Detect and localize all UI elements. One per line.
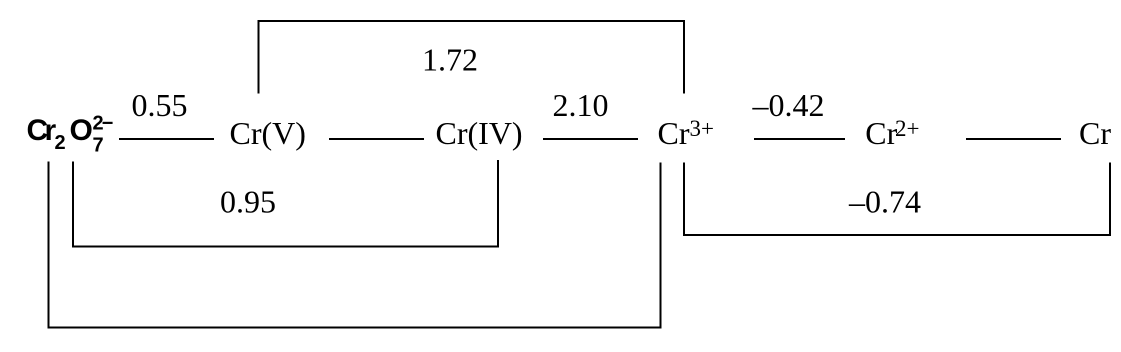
svg-text:O: O [70,114,93,147]
wire Cr2+/Cr [966,138,1061,140]
svg-text:–0.42: –0.42 [752,87,825,123]
wire Cr(V)/Cr(IV) [329,138,424,140]
svg-text:–0.74: –0.74 [848,184,921,220]
svg-text:−: − [102,113,114,135]
bracket Cr(V) to Cr3+ (top) [259,21,685,94]
svg-text:7: 7 [93,135,104,157]
svg-text:Cr: Cr [1079,115,1111,151]
svg-text:2: 2 [55,132,66,154]
svg-text:Cr(IV): Cr(IV) [436,115,523,151]
species Cr2O7^2- [27,113,114,157]
svg-text:1.72: 1.72 [422,42,478,78]
wire Cr3+/Cr2+ [754,138,845,140]
wire Cr2O7/Cr(V) [119,138,214,140]
svg-text:2.10: 2.10 [553,87,609,123]
svg-text:0.55: 0.55 [132,87,188,123]
bracket Cr2O7 to Cr(IV) (inner bottom) [73,160,498,247]
bracket Cr2O7 to Cr3+ (outer bottom) [49,162,661,328]
svg-text:Cr(V): Cr(V) [230,115,306,151]
svg-text:0.95: 0.95 [220,184,276,220]
wire Cr(IV)/Cr3+ [543,138,638,140]
bracket Cr3+ to Cr (right bottom) [684,163,1110,236]
